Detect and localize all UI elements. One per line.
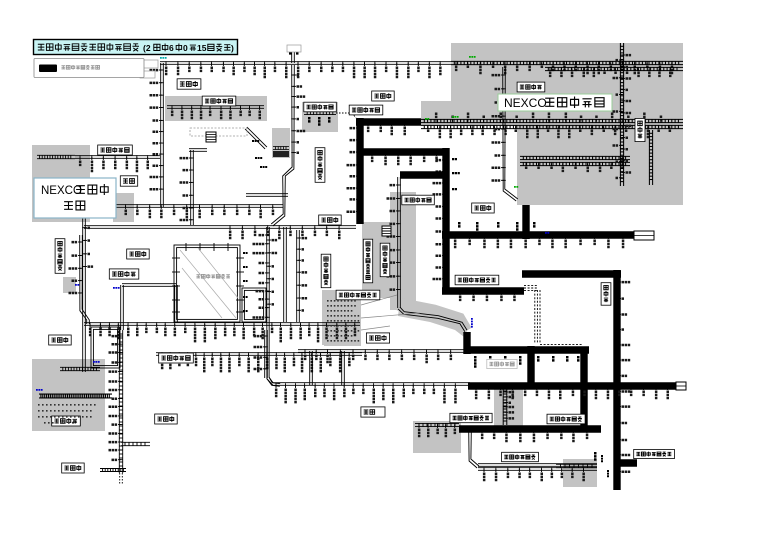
road dashed Subashiri connector xyxy=(524,284,538,286)
label Kanetsu vert xyxy=(635,118,645,141)
gray region NEXCO-East mid band xyxy=(421,101,683,126)
road loop right xyxy=(174,285,176,322)
label Shirakawago dark xyxy=(273,151,289,157)
road dotted rect Kanmisaka xyxy=(190,128,247,136)
label Chuo-do left xyxy=(319,215,342,225)
closure V2 xyxy=(442,148,449,294)
road Hokuriku second row in gray xyxy=(545,70,683,72)
road Izu-Jukan ladder xyxy=(502,388,504,425)
gray band Sanen-Nanshin west xyxy=(362,222,390,298)
closure H4 Fujigoko xyxy=(442,287,524,294)
road Hokuriku vertical west xyxy=(160,63,162,207)
road Higashi-Meihan loop top xyxy=(122,285,176,287)
stub T4 end xyxy=(676,382,686,390)
road Nagano-bunki gray pair xyxy=(520,159,630,161)
label Sanen-Nanshin horiz xyxy=(336,290,380,300)
blob columns between T1 and T4 xyxy=(474,356,477,368)
annotation meihan text xyxy=(38,404,96,406)
road Oyabe stub xyxy=(291,46,293,63)
label Chubu-Odan vert xyxy=(380,243,390,277)
label Chuo-do right xyxy=(472,203,495,213)
road Higashi-Meihan horizontal xyxy=(84,324,360,326)
gray box Shuzenji xyxy=(413,421,461,453)
road Tokai-Kanjo east xyxy=(296,230,298,322)
stub Yusaka xyxy=(206,132,216,137)
road Seisho pair xyxy=(478,465,597,467)
label Izu-Jukan xyxy=(450,413,492,422)
closure H4b xyxy=(522,270,621,277)
road Hokuriku-do top horizontal xyxy=(160,63,451,65)
gray region west ext xyxy=(113,193,134,222)
road Joshinetsu pair lower xyxy=(421,128,683,130)
road Meishin xyxy=(84,206,283,208)
label Meishin xyxy=(120,176,137,186)
road Yokkaichi vertical xyxy=(264,330,266,378)
road Isewangan xyxy=(156,354,362,356)
label Tokai-Kanjo vert xyxy=(55,239,65,274)
gray box Abo-toge xyxy=(302,102,338,132)
road Takayama xyxy=(246,195,288,197)
road Shin-Fuji curve xyxy=(398,309,465,332)
closure T4 Tomei east xyxy=(468,382,676,389)
road Sanen-Nanshin vertical xyxy=(397,177,399,308)
label Sanen-Nanshin vert xyxy=(363,239,372,283)
ticks under H1 xyxy=(367,120,369,124)
road Hida diagonal xyxy=(245,129,265,149)
label Chubu-Odan horiz xyxy=(402,195,435,205)
road inner loop xyxy=(242,288,266,322)
closure V5b xyxy=(527,346,534,386)
road Meihan-kokudo ladder xyxy=(39,397,112,399)
road Meishin south vertical xyxy=(82,206,84,372)
label Nagoya expressway gray xyxy=(196,275,200,278)
gray region NEXCO-East upper xyxy=(451,43,683,101)
road annotation leaders xyxy=(361,295,397,305)
road Meinikan loop xyxy=(174,245,240,322)
label Odawara-Atsugi xyxy=(547,414,585,424)
road Joshinetsu pair upper xyxy=(421,122,683,124)
blobs Seisho east end xyxy=(594,452,597,461)
NEXCO West box xyxy=(34,178,116,218)
gray band Chubu-Jukan xyxy=(165,96,267,121)
road Kisei tick bar xyxy=(100,471,126,473)
road Nagano-do xyxy=(503,67,517,201)
road Chita vertical xyxy=(267,227,280,386)
gray curve band Shin-Fuji xyxy=(398,300,468,340)
label Nishi-Fuji gray xyxy=(487,359,517,368)
gray region NEXCO-East lower xyxy=(517,126,683,205)
gray box Meihan xyxy=(32,359,105,431)
road Hakone ladder xyxy=(556,467,597,469)
label Kisei-do xyxy=(62,463,84,473)
legend box xyxy=(34,59,144,78)
closure T2 Odawara-Atsugi xyxy=(459,425,601,432)
label tiny boxes Tsuruga xyxy=(140,60,158,68)
road Hakone-shindo xyxy=(469,430,477,468)
closure H3 stub xyxy=(400,171,446,178)
svg-text:NEXCO: NEXCO xyxy=(41,185,82,197)
label Maizuru-Wakasa xyxy=(98,145,133,155)
label Chubu-Jukan left xyxy=(202,96,236,106)
label tiny box Oyabe xyxy=(287,45,301,52)
road Chuo west branch vert xyxy=(283,227,285,322)
label Tokai-Kanjo east vert xyxy=(321,254,331,288)
road Kusatsu loop xyxy=(91,327,120,368)
label Chubu-Jukan right xyxy=(304,102,337,112)
road Maizuru-Wakasa xyxy=(75,157,160,159)
closure V4 Kenodo xyxy=(613,270,620,490)
label Higashi-Meihan xyxy=(109,269,139,279)
svg-text:NEXCO: NEXCO xyxy=(504,96,547,110)
road Chuo-do west xyxy=(84,227,356,229)
road Shin-Tomei west xyxy=(298,351,464,353)
svg-text:(2: (2 xyxy=(143,43,151,53)
stub H5 end xyxy=(634,231,654,240)
gray box small Kyoto xyxy=(63,277,76,293)
road Joetsu line xyxy=(648,130,650,185)
closure V5 xyxy=(463,332,470,354)
road Chubu-Jukan xyxy=(167,107,264,109)
label Meinikan xyxy=(127,249,150,259)
road Shin-Meishin ladder xyxy=(60,370,100,372)
road Tokai-Hokuriku xyxy=(271,65,292,224)
closure H2 xyxy=(360,148,448,155)
label Kenodo vert xyxy=(601,283,611,306)
road Ono-Yusaka xyxy=(190,150,192,225)
closure H5 Chuo east xyxy=(442,231,634,238)
closure V1 vertical xyxy=(356,118,363,224)
title bar xyxy=(34,40,238,55)
label Abo-toge xyxy=(349,105,383,115)
label Seisho bypass xyxy=(502,452,539,461)
svg-text:0: 0 xyxy=(183,43,188,53)
boundary color marks xyxy=(160,57,167,59)
road Tokai-Kanjo west xyxy=(80,235,87,324)
road Ise-do ladder xyxy=(118,330,120,473)
annotation text lines xyxy=(327,300,356,302)
closure V6 Gotemba xyxy=(580,347,587,430)
road Kisei tail dashes xyxy=(119,473,121,485)
gray box Shirakawago xyxy=(272,128,290,158)
road Tomei west xyxy=(267,379,470,386)
label Shin-Tomei xyxy=(366,333,389,343)
closure V7 stub xyxy=(617,459,637,466)
blobs Shirakawa xyxy=(252,140,259,142)
road faint loop diagonals xyxy=(180,250,236,318)
label Nagano-do xyxy=(372,91,395,101)
label Tomei xyxy=(361,407,385,417)
label Shin-Meishin xyxy=(49,335,71,345)
road Maizuru teeth in gray xyxy=(37,158,75,160)
gray annotation box xyxy=(324,297,361,346)
label Tokai-Hokuriku vert xyxy=(315,148,325,183)
gray box Shin-Meishin west xyxy=(55,362,73,381)
label Isewangan xyxy=(159,353,194,363)
road Shuzenji xyxy=(415,426,459,428)
blobs above H5 east xyxy=(458,222,461,228)
svg-text:): ) xyxy=(231,43,234,53)
gray region NEXCO-West xyxy=(32,145,90,222)
blue vert Shin-Fuji xyxy=(471,318,473,328)
label Ise-do xyxy=(155,414,178,424)
road Higashi-Meihan vertical xyxy=(120,285,122,330)
road Hamamatsu connectors xyxy=(309,351,311,385)
gray band south xyxy=(322,290,340,345)
road Kanetsu xyxy=(619,43,621,186)
ticks on loop edges xyxy=(185,243,187,251)
label Hokuriku-do xyxy=(177,79,201,89)
gray band Sanen-Nanshin vertical xyxy=(390,192,416,310)
svg-text:15: 15 xyxy=(197,43,207,53)
blobs right of V2 xyxy=(452,158,457,160)
stub twin small xyxy=(382,226,391,231)
closure H1 Chuo north xyxy=(356,118,421,125)
label Joshinetsu xyxy=(517,82,545,92)
road Ise branch xyxy=(121,445,150,447)
svg-text:6: 6 xyxy=(169,43,174,53)
label Meihan-kokudo xyxy=(52,416,81,426)
closure V3 xyxy=(522,205,529,239)
label Higashi-Fujigoko xyxy=(455,275,499,285)
gray box Izu-Jukan xyxy=(494,388,523,426)
gray box Manazuru xyxy=(563,459,597,487)
road Abo ladder xyxy=(304,114,336,116)
label Shin-Shonan bypass xyxy=(634,449,675,458)
label NEXCO East box xyxy=(498,94,612,111)
closure T1 Shin-Tomei east xyxy=(464,346,589,353)
